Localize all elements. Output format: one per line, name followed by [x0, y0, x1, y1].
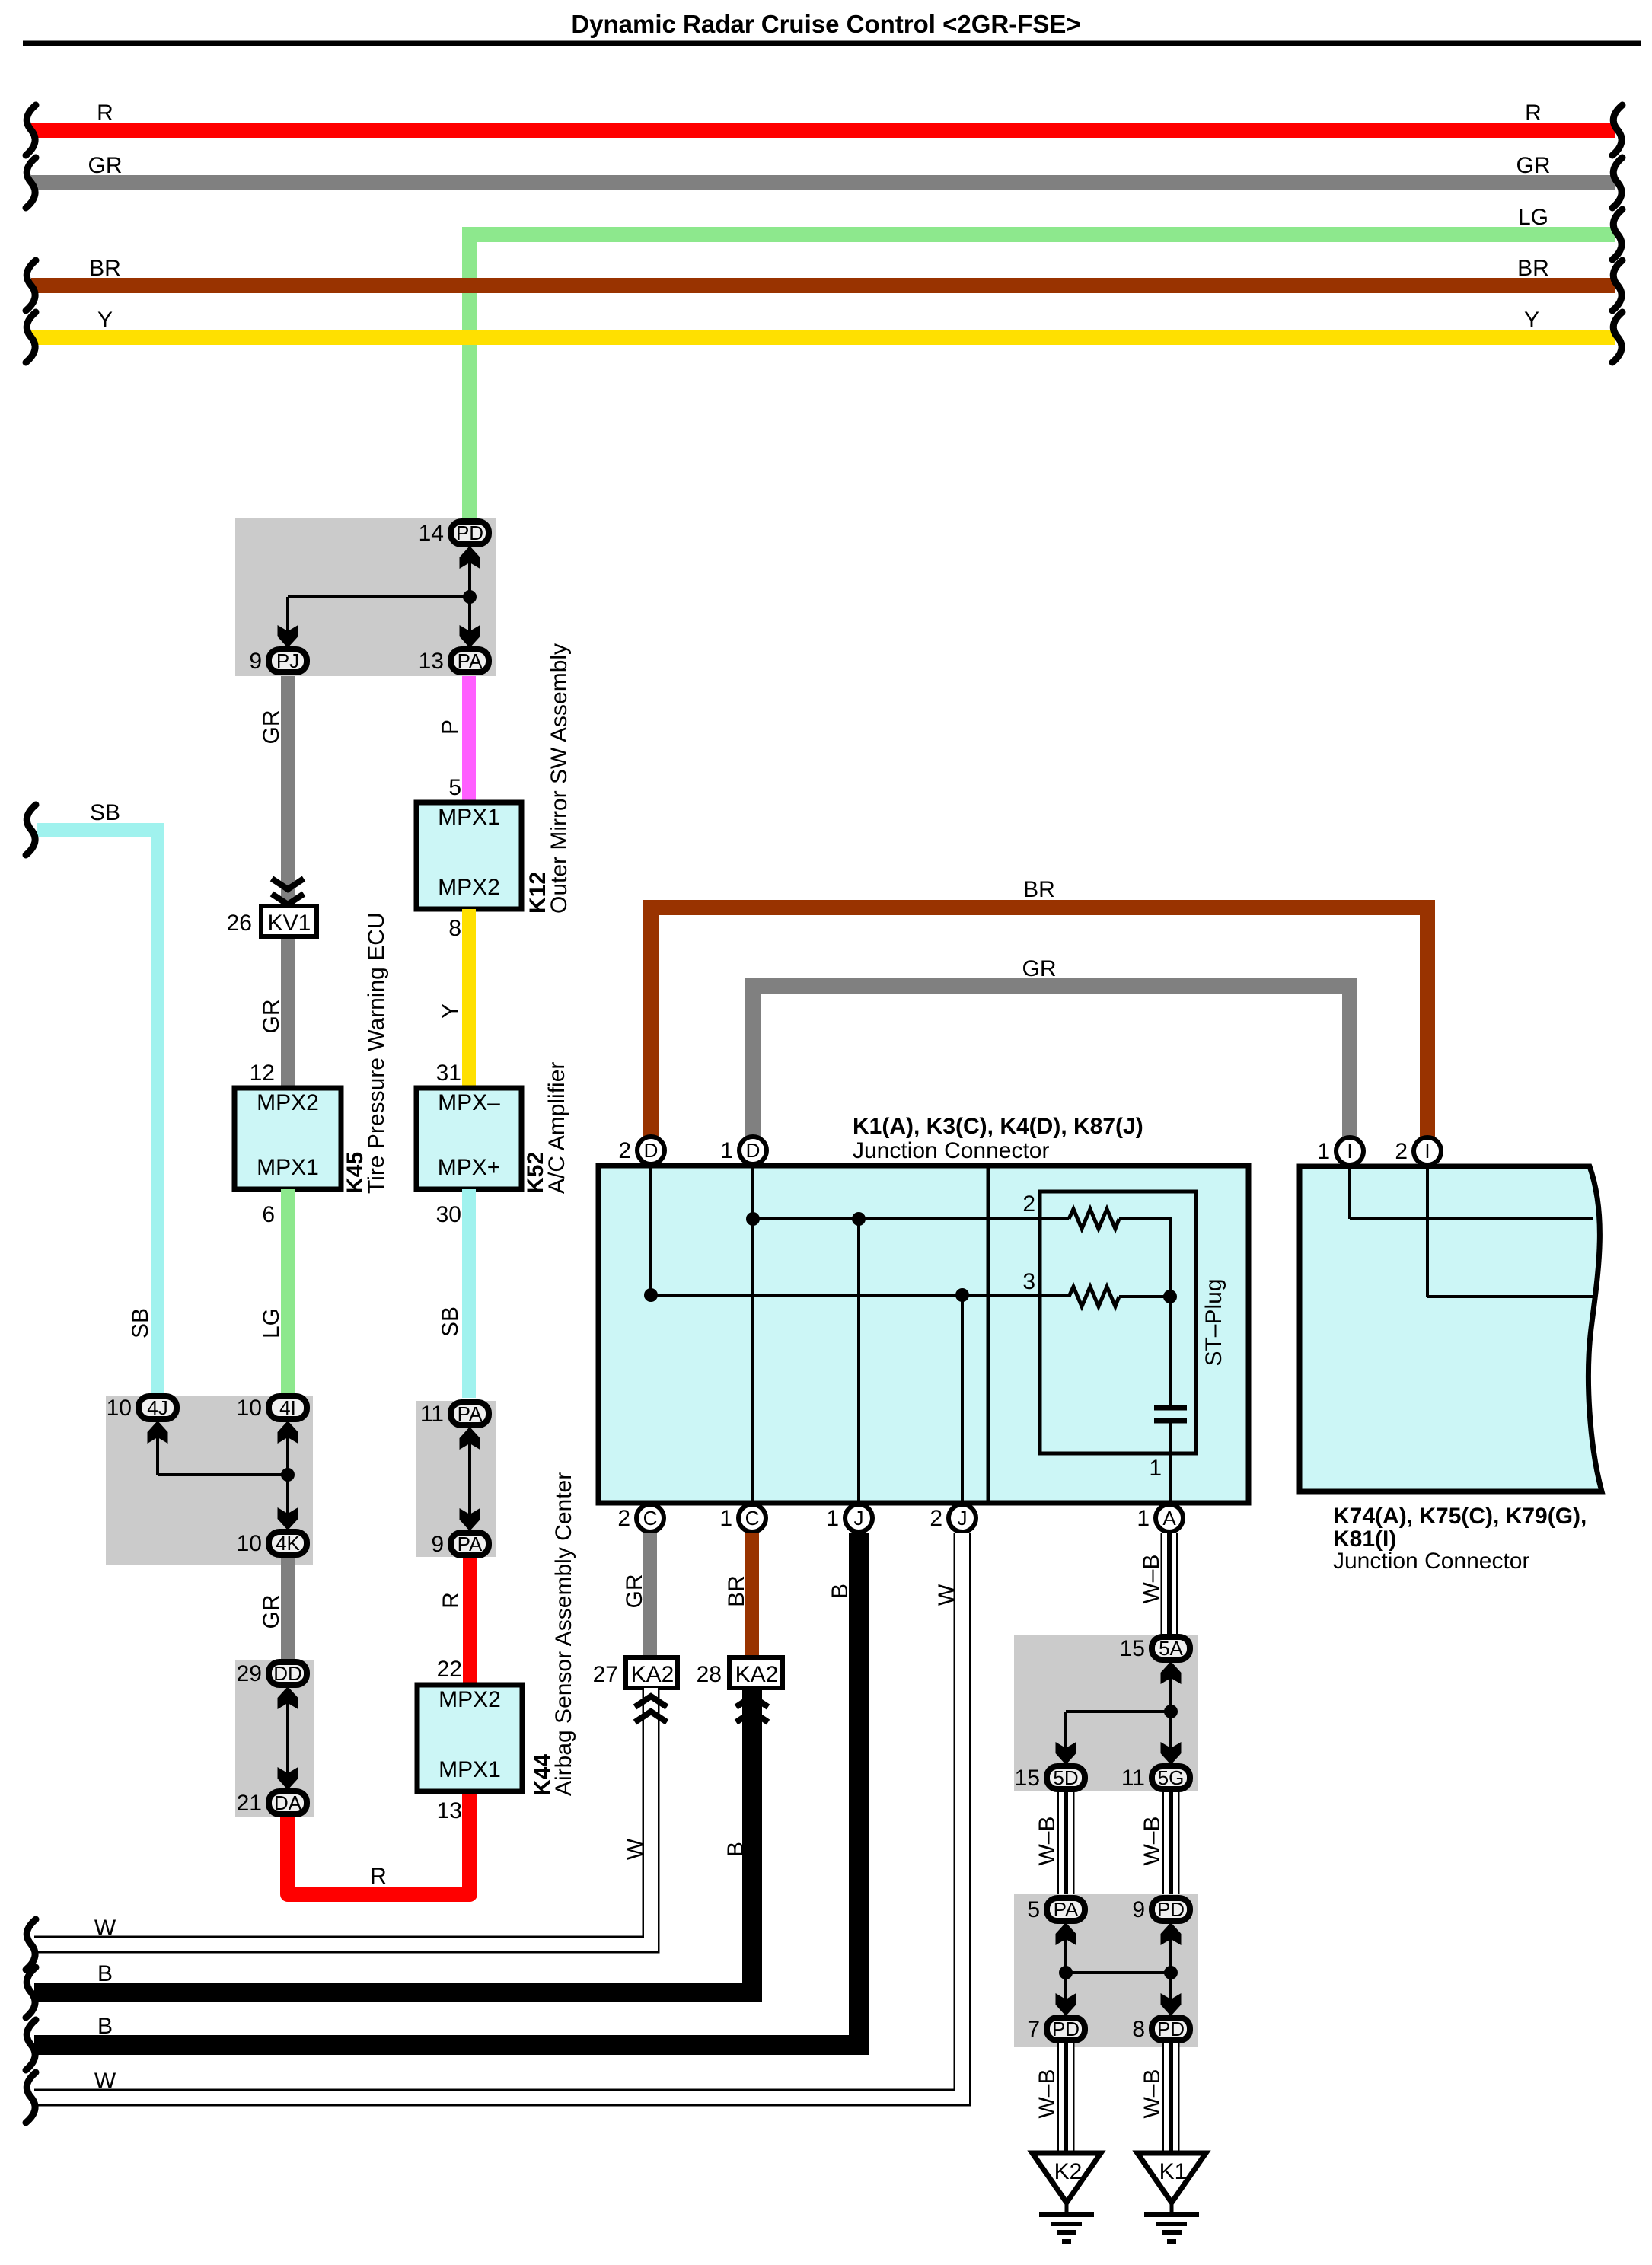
svg-text:GR: GR	[88, 153, 123, 178]
svg-text:9: 9	[249, 649, 262, 674]
svg-text:B: B	[828, 1584, 853, 1599]
svg-text:8: 8	[1132, 2017, 1145, 2042]
svg-text:BR: BR	[89, 256, 121, 281]
svg-text:10: 10	[107, 1396, 132, 1421]
svg-text:W–B: W–B	[1140, 2069, 1165, 2118]
svg-text:J: J	[854, 1507, 864, 1530]
svg-text:GR: GR	[1516, 153, 1551, 178]
svg-text:PD: PD	[1157, 2018, 1185, 2040]
svg-text:B: B	[97, 1961, 113, 1986]
svg-text:15: 15	[1120, 1636, 1145, 1661]
svg-text:W: W	[94, 2069, 116, 2094]
svg-text:KV1: KV1	[268, 911, 311, 936]
svg-text:K2: K2	[1054, 2159, 1083, 2184]
svg-text:27: 27	[593, 1662, 618, 1687]
svg-text:8: 8	[448, 916, 461, 941]
svg-text:1: 1	[1317, 1139, 1330, 1164]
svg-text:GR: GR	[1022, 956, 1057, 981]
svg-text:SB: SB	[128, 1308, 153, 1338]
svg-text:P: P	[438, 719, 463, 735]
svg-text:1: 1	[719, 1506, 732, 1531]
svg-text:4I: 4I	[279, 1396, 296, 1419]
svg-text:1: 1	[1137, 1506, 1150, 1531]
svg-text:2: 2	[1395, 1139, 1408, 1164]
svg-text:10: 10	[237, 1396, 262, 1421]
svg-text:KA2: KA2	[631, 1662, 675, 1687]
svg-text:28: 28	[697, 1662, 722, 1687]
svg-text:SB: SB	[90, 800, 120, 825]
svg-text:11: 11	[1121, 1766, 1145, 1791]
svg-text:SB: SB	[438, 1306, 463, 1337]
svg-text:MPX–: MPX–	[438, 1090, 500, 1115]
svg-text:13: 13	[419, 649, 444, 674]
svg-text:BR: BR	[1517, 256, 1549, 281]
svg-text:W–B: W–B	[1035, 2069, 1060, 2118]
svg-text:A/C Amplifier: A/C Amplifier	[544, 1062, 569, 1194]
svg-text:W–B: W–B	[1140, 1816, 1165, 1865]
svg-text:K1: K1	[1159, 2159, 1188, 2184]
svg-text:Y: Y	[438, 1003, 463, 1019]
svg-text:Airbag Sensor Assembly Center: Airbag Sensor Assembly Center	[551, 1472, 576, 1796]
svg-text:MPX1: MPX1	[257, 1155, 319, 1180]
svg-text:13: 13	[437, 1798, 462, 1823]
svg-text:MPX2: MPX2	[439, 1687, 501, 1712]
svg-text:4K: 4K	[276, 1532, 300, 1555]
svg-text:14: 14	[419, 521, 444, 546]
svg-text:31: 31	[436, 1061, 461, 1086]
svg-text:W: W	[623, 1838, 648, 1860]
svg-text:R: R	[1525, 100, 1542, 126]
svg-text:LG: LG	[1518, 205, 1548, 230]
svg-text:BR: BR	[724, 1575, 749, 1607]
svg-text:R: R	[97, 100, 113, 126]
svg-text:KA2: KA2	[735, 1662, 779, 1687]
svg-text:R: R	[439, 1592, 464, 1609]
svg-text:30: 30	[436, 1202, 461, 1227]
svg-text:W–B: W–B	[1139, 1554, 1164, 1603]
svg-text:R: R	[370, 1864, 387, 1889]
svg-text:26: 26	[227, 911, 252, 936]
svg-text:W: W	[94, 1916, 116, 1941]
svg-text:5G: 5G	[1158, 1766, 1185, 1789]
svg-text:29: 29	[237, 1661, 262, 1686]
svg-text:B: B	[723, 1842, 748, 1857]
svg-text:BR: BR	[1023, 877, 1055, 902]
svg-text:9: 9	[431, 1532, 444, 1557]
svg-text:MPX2: MPX2	[257, 1090, 319, 1115]
svg-text:C: C	[745, 1507, 760, 1530]
svg-text:MPX2: MPX2	[438, 875, 500, 900]
svg-text:PD: PD	[1157, 1898, 1185, 1921]
svg-text:I: I	[1424, 1140, 1430, 1163]
svg-text:B: B	[97, 2014, 113, 2039]
svg-text:5A: 5A	[1159, 1637, 1183, 1660]
svg-text:K74(A), K75(C), K79(G),: K74(A), K75(C), K79(G),	[1333, 1504, 1587, 1529]
svg-text:2: 2	[930, 1506, 942, 1531]
svg-text:Y: Y	[1524, 308, 1539, 333]
svg-text:I: I	[1347, 1140, 1352, 1163]
svg-text:MPX1: MPX1	[438, 805, 500, 830]
svg-text:3: 3	[1022, 1269, 1035, 1294]
svg-text:9: 9	[1132, 1897, 1145, 1922]
svg-text:Y: Y	[97, 308, 113, 333]
svg-text:MPX+: MPX+	[438, 1155, 501, 1180]
svg-text:A: A	[1162, 1507, 1176, 1530]
svg-text:1: 1	[1149, 1456, 1162, 1481]
svg-text:Outer Mirror SW Assembly: Outer Mirror SW Assembly	[547, 643, 572, 914]
svg-text:DD: DD	[273, 1662, 302, 1685]
svg-text:K1(A), K3(C), K4(D), K87(J): K1(A), K3(C), K4(D), K87(J)	[853, 1114, 1143, 1139]
svg-text:GR: GR	[622, 1574, 647, 1609]
svg-text:PA: PA	[458, 649, 483, 672]
svg-text:PA: PA	[458, 1402, 483, 1425]
svg-text:GR: GR	[259, 1595, 284, 1629]
svg-text:PJ: PJ	[276, 649, 299, 672]
svg-text:W–B: W–B	[1035, 1816, 1060, 1865]
svg-text:21: 21	[237, 1791, 262, 1816]
svg-text:ST–Plug: ST–Plug	[1201, 1278, 1226, 1366]
svg-text:1: 1	[826, 1506, 839, 1531]
svg-text:2: 2	[1022, 1192, 1035, 1217]
svg-text:12: 12	[250, 1061, 275, 1086]
svg-text:5: 5	[448, 775, 461, 800]
svg-text:5: 5	[1027, 1897, 1040, 1922]
svg-text:11: 11	[420, 1402, 444, 1427]
svg-text:LG: LG	[259, 1308, 284, 1338]
svg-text:GR: GR	[259, 1000, 284, 1034]
svg-text:J: J	[958, 1507, 968, 1530]
svg-text:7: 7	[1027, 2017, 1040, 2042]
svg-text:PD: PD	[456, 522, 483, 544]
svg-text:5D: 5D	[1053, 1766, 1078, 1789]
svg-text:D: D	[746, 1139, 761, 1162]
svg-text:10: 10	[237, 1531, 262, 1556]
svg-text:1: 1	[720, 1138, 733, 1163]
svg-text:4J: 4J	[147, 1396, 167, 1419]
svg-text:W: W	[934, 1584, 959, 1606]
svg-text:D: D	[644, 1139, 659, 1162]
svg-text:MPX1: MPX1	[439, 1757, 501, 1782]
svg-text:15: 15	[1015, 1766, 1040, 1791]
svg-text:22: 22	[437, 1657, 462, 1682]
svg-text:Junction Connector: Junction Connector	[1333, 1549, 1530, 1574]
svg-text:Dynamic Radar Cruise Control <: Dynamic Radar Cruise Control <2GR-FSE>	[571, 10, 1080, 38]
svg-text:2: 2	[618, 1138, 631, 1163]
svg-text:C: C	[643, 1507, 658, 1530]
svg-text:GR: GR	[259, 710, 284, 745]
svg-text:6: 6	[262, 1202, 275, 1227]
svg-text:DA: DA	[274, 1791, 302, 1814]
svg-text:Junction Connector: Junction Connector	[853, 1138, 1050, 1163]
svg-text:2: 2	[617, 1506, 630, 1531]
svg-text:PA: PA	[458, 1533, 483, 1555]
svg-text:PD: PD	[1052, 2018, 1080, 2040]
svg-text:Tire Pressure Warning ECU: Tire Pressure Warning ECU	[364, 912, 389, 1194]
svg-text:PA: PA	[1054, 1898, 1079, 1921]
